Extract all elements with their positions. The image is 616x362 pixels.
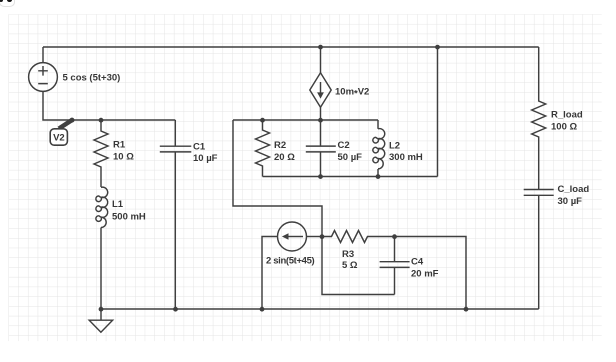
resistor R1 <box>94 120 108 187</box>
svg-text:R1: R1 <box>113 139 126 150</box>
wire left drop to source <box>42 47 44 63</box>
wire riser box bottom to top rail <box>437 47 439 177</box>
capacitor C_load <box>524 190 554 310</box>
wire bottom rail <box>101 308 539 310</box>
capacitor C1 <box>160 120 192 309</box>
svg-text:5 Ω: 5 Ω <box>342 260 358 271</box>
node C2 top / dep source bottom <box>318 118 323 123</box>
wire current source right to node A <box>307 236 323 238</box>
resistor R3 <box>322 231 395 243</box>
node R1 top <box>99 118 104 123</box>
capacitor C4 <box>380 237 410 295</box>
current source 2sin(5t+45) <box>278 222 307 251</box>
svg-text:L2: L2 <box>389 140 400 151</box>
svg-text:10m*V2: 10m*V2 <box>335 87 369 100</box>
svg-text:L1: L1 <box>112 199 124 210</box>
cropped caption text top-left <box>0 0 1 1</box>
node B R3 / C4 <box>392 234 397 239</box>
label V2 callout <box>50 118 73 145</box>
node dep source top rail <box>318 45 323 50</box>
svg-text:300 mH: 300 mH <box>389 152 423 163</box>
svg-text:C2: C2 <box>338 140 350 151</box>
inductor L2 <box>373 120 385 177</box>
node C2 bottom <box>318 174 323 179</box>
svg-text:5 cos (5t+30): 5 cos (5t+30) <box>63 73 121 84</box>
inductor L1 <box>96 187 108 227</box>
svg-text:R2: R2 <box>274 140 286 151</box>
wire R3 right to right riser <box>395 237 467 310</box>
wire current source left to bottom rail <box>262 237 278 310</box>
svg-text:500 mH: 500 mH <box>112 211 146 222</box>
node R2 top <box>260 118 265 123</box>
ground <box>89 309 112 332</box>
svg-text:C_load: C_load <box>558 184 590 195</box>
svg-text:V2: V2 <box>53 132 65 143</box>
node V2 probe <box>70 118 75 123</box>
svg-text:C1: C1 <box>193 141 206 152</box>
node L2 bottom <box>376 174 381 179</box>
dependent current source 10m*V2 <box>310 47 331 120</box>
wire box left edge down <box>233 120 322 237</box>
node right riser rail <box>464 307 469 312</box>
wire source bottom to node row <box>43 91 175 120</box>
svg-text:20 Ω: 20 Ω <box>274 152 295 163</box>
wire C4 bottom loop <box>322 237 395 295</box>
svg-text:R3: R3 <box>342 249 354 260</box>
svg-text:100 Ω: 100 Ω <box>551 121 577 132</box>
wire RLC box top <box>233 119 378 121</box>
resistor R_load <box>532 47 546 190</box>
svg-text:2 sin(5t+45): 2 sin(5t+45) <box>266 255 315 266</box>
svg-text:10 Ω: 10 Ω <box>113 151 134 162</box>
voltage source V1 5cos(5t+30) <box>29 63 58 92</box>
wire top rail <box>43 46 539 48</box>
capacitor C2 <box>306 120 336 177</box>
resistor R2 <box>256 120 270 177</box>
svg-text:30 µF: 30 µF <box>558 196 583 207</box>
svg-text:10 µF: 10 µF <box>193 153 218 164</box>
wire box bottom <box>263 176 438 178</box>
node A current source / R3 <box>320 234 325 239</box>
svg-text:R_load: R_load <box>551 109 583 120</box>
node C1 bottom rail <box>173 307 178 312</box>
node source branch rail <box>260 307 265 312</box>
node riser top rail <box>435 45 440 50</box>
node ground rail left <box>99 307 104 312</box>
wire L1 bottom to rail <box>100 228 102 310</box>
svg-text:50 µF: 50 µF <box>338 152 363 163</box>
svg-text:20 mF: 20 mF <box>411 269 439 280</box>
svg-text:C4: C4 <box>411 257 424 268</box>
